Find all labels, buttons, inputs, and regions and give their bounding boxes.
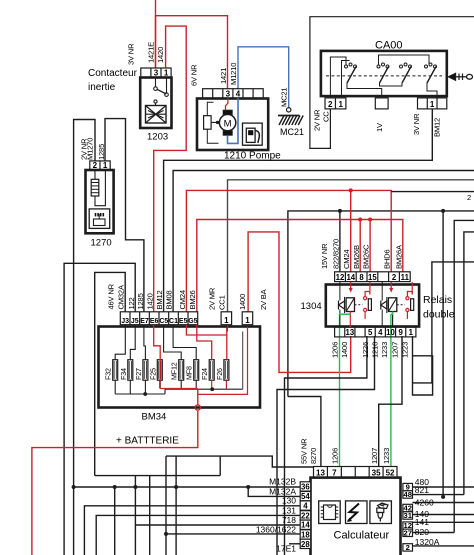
svg-text:C5: C5 (159, 318, 168, 325)
svg-text:BM26B: BM26B (352, 245, 361, 269)
svg-text:F32: F32 (104, 368, 113, 380)
svg-text:CM32A: CM32A (117, 284, 126, 309)
svg-text:1233: 1233 (382, 448, 391, 464)
svg-text:1203: 1203 (147, 132, 168, 143)
svg-text:131: 131 (282, 505, 296, 515)
svg-text:1420: 1420 (156, 47, 165, 63)
svg-text:141: 141 (415, 517, 429, 527)
svg-text:12: 12 (336, 273, 345, 282)
svg-text:6V NR: 6V NR (190, 64, 199, 86)
svg-text:Calculateur: Calculateur (334, 530, 390, 542)
svg-text:718: 718 (282, 515, 296, 525)
svg-text:1223: 1223 (401, 342, 410, 358)
svg-text:4: 4 (303, 502, 308, 511)
svg-text:27: 27 (403, 528, 411, 537)
svg-text:E7: E7 (140, 318, 149, 325)
svg-text:3V NR: 3V NR (412, 113, 421, 135)
svg-text:3: 3 (226, 89, 231, 98)
svg-text:1210 Pompe: 1210 Pompe (224, 150, 281, 161)
svg-text:4260: 4260 (415, 498, 434, 508)
svg-text:820: 820 (415, 527, 429, 537)
svg-text:14: 14 (301, 521, 310, 530)
svg-text:M1210: M1210 (229, 63, 238, 85)
svg-text:F27: F27 (134, 368, 143, 380)
svg-text:Contacteur: Contacteur (88, 68, 138, 79)
svg-text:9: 9 (398, 328, 403, 337)
svg-text:1285: 1285 (97, 144, 106, 160)
svg-text:1360/1622: 1360/1622 (256, 524, 296, 534)
svg-text:1400: 1400 (340, 342, 349, 358)
svg-text:822/8270: 822/8270 (331, 239, 340, 269)
svg-text:Relais: Relais (423, 294, 452, 306)
svg-text:CC1: CC1 (218, 295, 227, 310)
svg-text:+ BATTTERIE: + BATTTERIE (116, 436, 179, 447)
svg-text:1304: 1304 (301, 301, 322, 312)
svg-text:18: 18 (301, 530, 310, 539)
svg-text:821: 821 (415, 485, 429, 495)
svg-text:2: 2 (328, 100, 333, 109)
svg-text:36: 36 (301, 482, 310, 491)
svg-text:BM26C: BM26C (362, 244, 371, 269)
svg-text:CM24: CM24 (342, 250, 351, 269)
svg-text:F26: F26 (215, 368, 224, 380)
svg-text:BM34: BM34 (142, 412, 167, 423)
svg-text:inertie: inertie (88, 82, 116, 93)
svg-text:1421: 1421 (219, 68, 228, 84)
svg-text:1226: 1226 (361, 342, 370, 358)
svg-text:BM26A: BM26A (394, 244, 403, 269)
svg-text:13: 13 (346, 328, 355, 337)
svg-text:1206: 1206 (331, 448, 340, 464)
svg-text:C1: C1 (169, 318, 178, 325)
svg-text:8270: 8270 (309, 448, 318, 464)
svg-text:11: 11 (401, 273, 410, 282)
svg-text:48: 48 (403, 490, 411, 499)
svg-text:BM12: BM12 (155, 290, 164, 309)
svg-text:G5: G5 (188, 318, 197, 325)
svg-text:1: 1 (409, 328, 414, 337)
svg-text:122: 122 (127, 297, 136, 309)
svg-text:double: double (423, 309, 455, 321)
svg-text:1206: 1206 (331, 342, 340, 358)
svg-text:MF8: MF8 (185, 366, 194, 380)
svg-text:1: 1 (430, 100, 435, 109)
svg-text:54: 54 (301, 492, 310, 501)
svg-text:MC21: MC21 (280, 127, 304, 137)
svg-text:CC: CC (322, 111, 331, 122)
svg-text:2V BA: 2V BA (259, 288, 268, 310)
svg-text:8: 8 (359, 273, 364, 282)
svg-text:M132B: M132B (269, 477, 296, 487)
svg-text:1: 1 (245, 316, 250, 325)
svg-text:31: 31 (403, 511, 412, 520)
svg-text:J3: J3 (121, 318, 129, 325)
svg-text:1207: 1207 (391, 342, 400, 358)
svg-text:1: 1 (338, 100, 343, 109)
svg-text:F34: F34 (119, 368, 128, 380)
svg-text:M1270: M1270 (86, 138, 95, 160)
svg-text:46V NR: 46V NR (107, 283, 116, 309)
svg-text:1421E: 1421E (147, 42, 156, 63)
svg-text:1: 1 (224, 316, 229, 325)
svg-text:BHD6: BHD6 (383, 250, 392, 269)
svg-text:2: 2 (392, 273, 397, 282)
svg-text:CM24: CM24 (178, 290, 187, 309)
svg-text:1210: 1210 (371, 342, 380, 358)
svg-text:2V NR: 2V NR (313, 109, 322, 131)
svg-text:14: 14 (346, 273, 355, 282)
svg-text:28: 28 (301, 540, 310, 549)
svg-text:130: 130 (282, 496, 296, 506)
svg-text:10: 10 (386, 328, 395, 337)
svg-text:1: 1 (103, 161, 108, 170)
svg-text:17E1: 17E1 (276, 544, 296, 554)
svg-text:4: 4 (378, 328, 383, 337)
svg-text:BM12: BM12 (433, 118, 442, 137)
svg-text:2: 2 (467, 193, 471, 202)
svg-text:15V NR: 15V NR (320, 243, 329, 269)
svg-text:1320A: 1320A (415, 537, 440, 547)
svg-text:2: 2 (93, 161, 98, 170)
svg-text:J5: J5 (131, 318, 139, 325)
svg-text:5: 5 (368, 328, 373, 337)
svg-text:3V NR: 3V NR (127, 43, 136, 65)
svg-text:1400: 1400 (238, 294, 247, 310)
svg-text:2V MR: 2V MR (208, 287, 217, 310)
svg-text:M: M (224, 118, 232, 129)
svg-text:BM26: BM26 (188, 290, 197, 309)
svg-text:E5: E5 (179, 318, 188, 325)
svg-text:E6: E6 (150, 318, 159, 325)
svg-text:1V: 1V (375, 122, 384, 132)
svg-text:1207: 1207 (370, 448, 379, 464)
svg-text:55V NR: 55V NR (300, 438, 309, 464)
svg-text:F25: F25 (148, 368, 157, 380)
svg-text:MC21: MC21 (280, 88, 289, 107)
svg-text:2: 2 (406, 543, 410, 552)
svg-text:1270: 1270 (91, 238, 112, 249)
svg-text:F24: F24 (200, 368, 209, 380)
svg-text:1420: 1420 (146, 293, 155, 309)
svg-text:15: 15 (368, 273, 377, 282)
svg-text:4: 4 (236, 89, 241, 98)
svg-text:1233: 1233 (380, 342, 389, 358)
svg-text:BM08: BM08 (165, 290, 174, 309)
svg-text:22: 22 (301, 511, 310, 520)
svg-text:1285: 1285 (136, 293, 145, 309)
svg-text:MF12: MF12 (170, 362, 179, 380)
